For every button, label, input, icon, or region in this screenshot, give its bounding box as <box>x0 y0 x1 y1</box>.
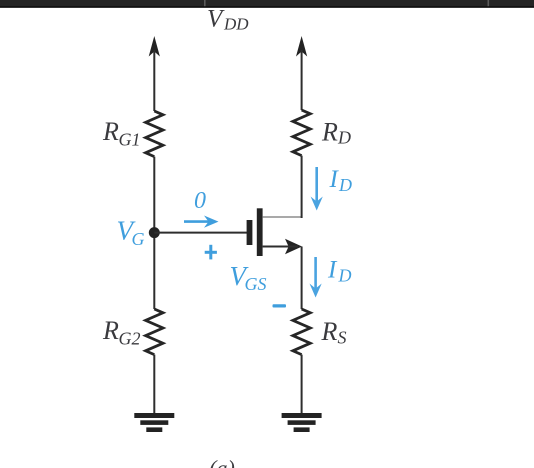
node VG junction dot <box>149 227 160 238</box>
ground (left) <box>134 413 174 432</box>
wire source to RS <box>301 247 303 310</box>
label ID (source) <box>327 257 352 286</box>
svg-text:(a): (a) <box>209 456 235 468</box>
label VGS <box>230 261 267 294</box>
transistor Q1 (NMOS) <box>247 208 302 256</box>
label + <box>205 245 217 260</box>
svg-text:0: 0 <box>194 188 206 214</box>
label V_DD <box>207 5 249 33</box>
power arrow (VDD) right branch <box>296 36 307 110</box>
wire gate <box>154 232 247 234</box>
label RD <box>321 117 351 147</box>
label RS <box>321 317 347 348</box>
svg-text:S: S <box>338 328 347 348</box>
svg-text:G2: G2 <box>119 328 141 348</box>
svg-text:R: R <box>102 117 119 146</box>
label ID (drain) <box>329 166 353 195</box>
svg-text:R: R <box>321 117 338 146</box>
gate current arrow (0) <box>184 216 219 228</box>
wire RS to ground <box>301 355 303 414</box>
svg-text:D: D <box>338 266 352 286</box>
toolbar strip <box>0 0 534 8</box>
svg-text:DD: DD <box>223 15 249 34</box>
label minus <box>273 304 287 307</box>
label RG2 <box>102 316 141 348</box>
svg-text:R: R <box>102 316 119 345</box>
power arrow (VDD) left branch <box>149 36 160 111</box>
svg-text:G: G <box>132 229 145 249</box>
svg-text:GS: GS <box>245 274 267 294</box>
wire drain (gray) <box>263 216 302 218</box>
svg-text:R: R <box>321 317 338 346</box>
resistor RD <box>293 110 310 156</box>
label VG <box>117 216 145 249</box>
resistor RS <box>293 309 310 355</box>
ground (right) <box>282 413 322 432</box>
current arrow ID (drain) <box>311 167 323 211</box>
label RG1 <box>102 117 141 150</box>
svg-text:G1: G1 <box>119 130 141 150</box>
resistor RG2 <box>146 309 163 355</box>
svg-text:D: D <box>338 175 352 195</box>
wire RG2 to ground <box>153 355 155 414</box>
wire RG1 to RG2 (through node) <box>153 157 155 309</box>
svg-text:D: D <box>337 127 351 147</box>
wire RD to drain <box>301 156 303 218</box>
current arrow ID (source) <box>310 257 322 298</box>
resistor RG1 <box>146 111 163 157</box>
